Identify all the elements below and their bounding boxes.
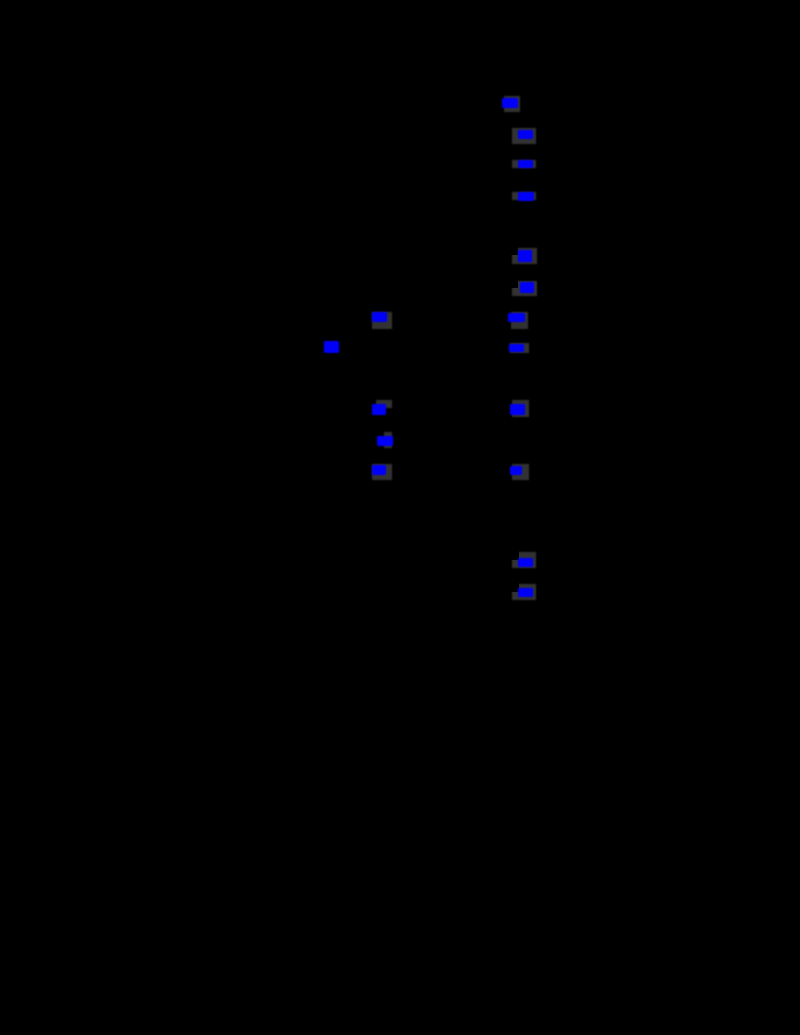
link 5 box notch <box>511 247 518 255</box>
link 10: grey annotation box <box>384 432 392 449</box>
link 11 right column: grey annotation box <box>512 464 529 480</box>
link 6: blue text <box>520 282 535 294</box>
link 11 left column: blue text <box>372 465 387 475</box>
link 11 right column: blue text <box>510 466 523 475</box>
link 9 left column: blue text <box>372 404 387 415</box>
link 8 right column: blue text <box>509 344 524 353</box>
link 11 left column: grey annotation box <box>372 464 393 480</box>
link 1 superscript: grey annotation box <box>504 96 520 112</box>
link 12: grey annotation box <box>512 552 536 568</box>
link 6: grey annotation box <box>512 281 537 297</box>
link 5: grey annotation box <box>512 248 537 264</box>
link 4: grey annotation box <box>512 192 536 201</box>
link 7 right column: blue text <box>508 313 525 322</box>
link 3: blue text <box>518 160 533 169</box>
link 5: blue text <box>518 250 532 262</box>
link 9 left column: grey annotation box <box>376 400 393 409</box>
link 8 right column: grey annotation box <box>510 343 529 353</box>
link 13: grey annotation box <box>512 584 536 600</box>
link 1 superscript: blue text <box>502 98 518 108</box>
link 3: grey annotation box <box>512 160 536 169</box>
link 7 right column: grey annotation box <box>511 312 529 329</box>
link 2: grey annotation box <box>512 128 536 144</box>
link 12: blue text <box>518 558 533 568</box>
link 7 left column: grey annotation box <box>372 312 392 329</box>
link 13: blue text <box>518 588 533 597</box>
link 7 left column: blue text <box>372 312 387 323</box>
link 9 right column: grey annotation box <box>512 400 529 417</box>
link 8 left column: blue text (no box) <box>324 341 339 353</box>
link 4: blue text <box>518 192 534 201</box>
link 6 box notch <box>511 280 518 288</box>
link 10: blue text <box>377 436 393 446</box>
link 2: blue text <box>518 130 534 139</box>
link 13 box notch <box>511 583 519 592</box>
link 9 right column: blue text <box>510 404 525 415</box>
link 12 box notch <box>511 551 519 560</box>
